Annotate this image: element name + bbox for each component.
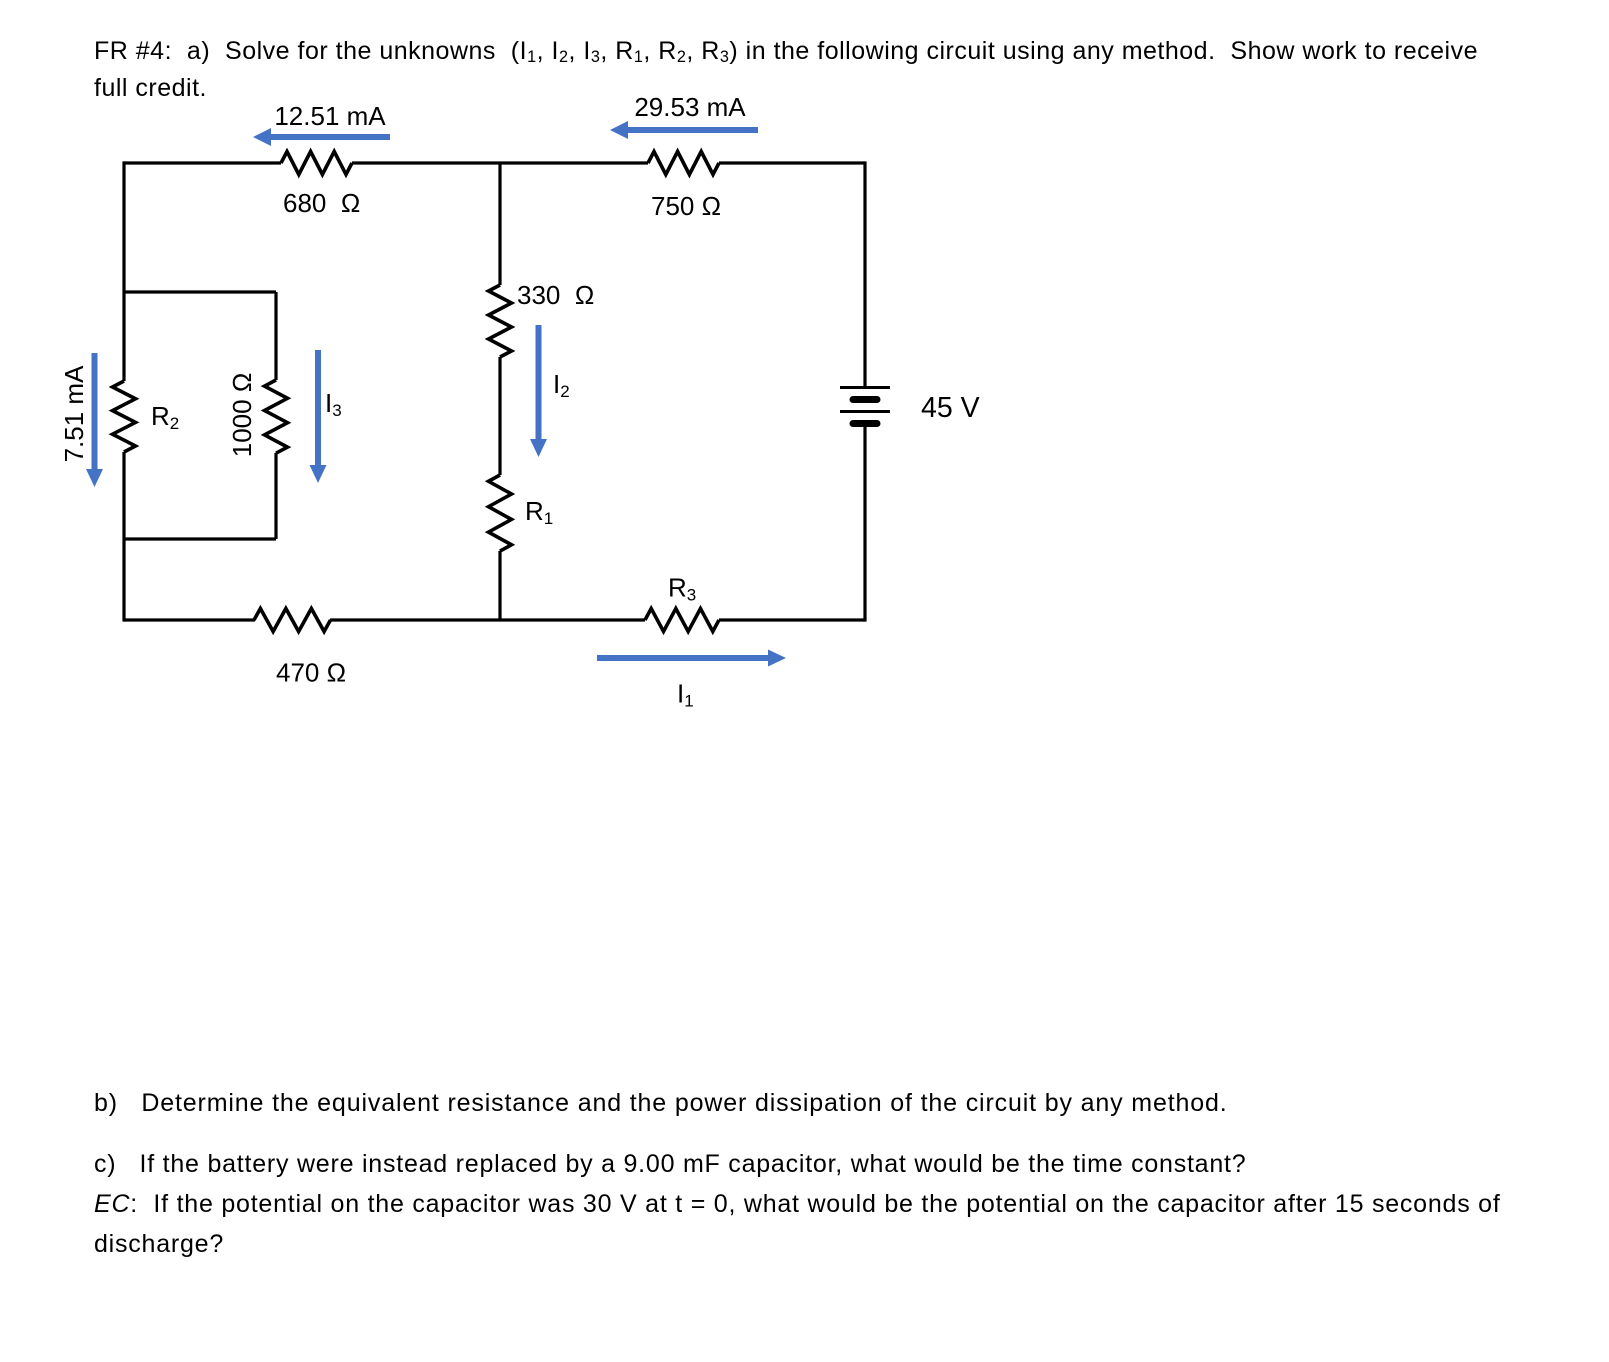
- current arrow I3 (down): [315, 350, 321, 466]
- current arrow I1 (right): [597, 655, 769, 661]
- wire right upper (to battery): [863, 161, 866, 387]
- current arrow 7.51 mA (down): [92, 353, 98, 470]
- battery plate short bottom: [853, 420, 877, 427]
- resistor 470 ohm: [254, 609, 330, 632]
- wire bottom-right segment: [719, 618, 865, 621]
- resistor R1: [489, 475, 512, 551]
- current arrow 29.53 mA (left): [627, 127, 758, 133]
- resistor 750 ohm: [648, 152, 719, 175]
- svg-text:750 Ω: 750 Ω: [651, 191, 721, 221]
- resistor 1000 ohm: [265, 380, 288, 453]
- battery 45 V: [840, 388, 890, 424]
- wire top-middle segment: [352, 161, 648, 164]
- paragraph b: [94, 1089, 1228, 1118]
- svg-text:R3: R3: [668, 573, 696, 605]
- current arrow I2 (down): [536, 325, 542, 440]
- svg-text:470 Ω: 470 Ω: [276, 658, 346, 688]
- inner box right lower wire: [274, 453, 277, 539]
- battery plate long top: [840, 386, 890, 389]
- svg-text:680 Ω: 680 Ω: [283, 188, 360, 218]
- svg-text:I1: I1: [677, 679, 694, 711]
- svg-text:I2: I2: [553, 369, 570, 401]
- svg-text:29.53 mA: 29.53 mA: [634, 92, 746, 122]
- svg-text:I3: I3: [325, 388, 342, 420]
- resistor R2: [113, 381, 136, 452]
- inner box top wire: [124, 290, 276, 293]
- wire middle center: [498, 357, 501, 475]
- wire left upper: [122, 161, 125, 381]
- svg-text:12.51 mA: 12.51 mA: [274, 101, 386, 131]
- svg-text:R1: R1: [525, 496, 553, 528]
- problem statement paragraph a: [94, 33, 1478, 106]
- wire top-left segment: [124, 161, 281, 164]
- wire right lower (from battery): [863, 424, 866, 622]
- inner box right upper wire: [274, 292, 277, 380]
- wire middle lower: [498, 551, 501, 620]
- wire middle upper: [498, 163, 501, 285]
- wire left lower: [122, 452, 125, 622]
- svg-text:330 Ω: 330 Ω: [517, 280, 594, 310]
- svg-text:45 V: 45 V: [921, 392, 980, 424]
- paragraph c: [94, 1144, 1501, 1264]
- svg-text:7.51 mA: 7.51 mA: [59, 365, 89, 462]
- battery plate short upper: [853, 396, 877, 403]
- svg-text:R2: R2: [151, 401, 179, 433]
- wire bottom-middle segment: [330, 618, 645, 621]
- resistor 680 ohm: [281, 152, 352, 175]
- current arrow 12.51 mA (left): [270, 134, 390, 140]
- wire top-right segment: [719, 161, 865, 164]
- resistor R3: [645, 609, 719, 632]
- svg-text:1000 Ω: 1000 Ω: [227, 373, 257, 458]
- battery plate long lower: [840, 410, 890, 413]
- inner box bottom wire: [124, 537, 276, 540]
- resistor 330 ohm: [489, 285, 512, 357]
- wire bottom-left segment: [124, 618, 255, 621]
